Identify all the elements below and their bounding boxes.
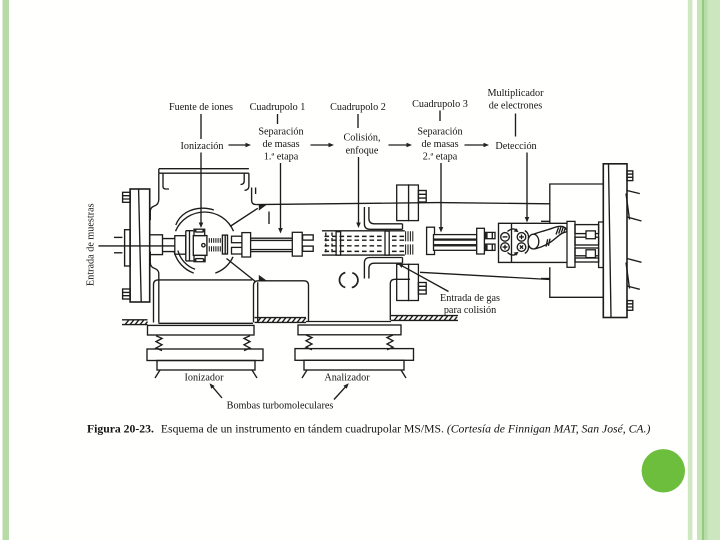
svg-text:Cuadrupolo 3: Cuadrupolo 3 bbox=[412, 99, 468, 110]
quad3 rods bbox=[434, 235, 477, 240]
quad1 rod stub top bbox=[232, 236, 243, 243]
chamber floor left with foot wall bbox=[154, 280, 253, 323]
connector stub bottom bbox=[485, 244, 495, 250]
svg-text:Fuente de iones: Fuente de iones bbox=[169, 102, 233, 113]
svg-text:Entrada de muestras: Entrada de muestras bbox=[86, 203, 97, 286]
quad1 rod stub bottom bbox=[232, 247, 243, 254]
pump1 plate1 bbox=[148, 325, 255, 335]
multiplier horn mouth bbox=[528, 234, 539, 249]
detector box bbox=[499, 223, 568, 262]
square nut top bbox=[586, 231, 595, 239]
lid right hook bbox=[241, 173, 249, 190]
horn mid ring bbox=[546, 239, 550, 247]
hatch piece right bbox=[391, 316, 458, 321]
sphere outer top stroke bbox=[176, 208, 214, 225]
pump2 plate1 bbox=[298, 325, 401, 335]
bulkhead upper bolt bbox=[418, 191, 426, 203]
fan line 4 bbox=[627, 286, 640, 289]
right green stripe thin bbox=[688, 0, 693, 540]
inlet tick upper bbox=[114, 236, 122, 238]
probe block bbox=[150, 235, 163, 255]
right green band bbox=[697, 0, 720, 540]
green circle bottom right bbox=[642, 449, 685, 492]
svg-text:enfoque: enfoque bbox=[346, 146, 379, 157]
bombas arrow left bbox=[212, 386, 222, 398]
ion source top cap bbox=[194, 229, 205, 235]
vent broken circle bbox=[339, 273, 358, 288]
arrow Separacion to Colision bbox=[311, 144, 330, 146]
fan line 3 bbox=[627, 259, 642, 263]
support line bottom bbox=[541, 278, 550, 280]
inlet tick lower bbox=[114, 252, 122, 254]
sphere bottom-right arc bbox=[215, 257, 233, 273]
svg-text:Cuadrupolo 2: Cuadrupolo 2 bbox=[330, 102, 386, 113]
svg-text:2.ª etapa: 2.ª etapa bbox=[423, 152, 458, 163]
cell exit plate bbox=[385, 231, 389, 255]
vertical arrow Fuente de iones to ion source bbox=[200, 114, 202, 223]
funnel upper diagonal bbox=[230, 208, 258, 226]
chamber bottom right slope bbox=[420, 272, 550, 279]
vertical arrow 2 etapa to quad3 bbox=[440, 163, 442, 228]
upper corner stub bbox=[252, 188, 257, 205]
cell solid boundaries bbox=[322, 231, 405, 255]
dynode circle minus bbox=[501, 233, 510, 242]
entry dashed plates bbox=[326, 233, 332, 255]
stub line under Multiplicador bbox=[515, 114, 517, 137]
svg-text:Multiplicador: Multiplicador bbox=[487, 88, 544, 99]
chamber top line bbox=[256, 203, 550, 205]
svg-text:Colisión,: Colisión, bbox=[343, 133, 380, 144]
pump1 foot left bbox=[155, 370, 160, 378]
fan line 1 bbox=[627, 191, 640, 194]
svg-text:Entrada de gas: Entrada de gas bbox=[440, 293, 500, 304]
pump1 bellows left bbox=[156, 336, 162, 351]
dynode circle plus top bbox=[517, 233, 526, 242]
arrow Separacion2 to Deteccion bbox=[465, 144, 485, 146]
probe tube lines bbox=[163, 239, 176, 252]
probe tip block bbox=[175, 236, 186, 255]
svg-text:Separación: Separación bbox=[258, 127, 303, 138]
sphere bottom-left inner arc bbox=[178, 251, 195, 270]
svg-text:Ionizador: Ionizador bbox=[184, 373, 224, 384]
arrow Ionizacion to Separacion bbox=[229, 144, 247, 146]
fan wedge top bbox=[626, 194, 630, 220]
ion source entrance bracket bbox=[186, 231, 194, 261]
detector divider bbox=[511, 223, 513, 262]
small flange plate bbox=[125, 230, 131, 266]
lens comb bbox=[209, 238, 220, 251]
chamber bottom curl left bbox=[150, 252, 159, 323]
svg-text:de electrones: de electrones bbox=[489, 101, 542, 112]
pump1 bellows right bbox=[244, 336, 250, 351]
svg-text:Bombas turbomoleculares: Bombas turbomoleculares bbox=[227, 400, 334, 411]
quad3 entry disk bbox=[427, 227, 435, 254]
support line top bbox=[541, 220, 550, 222]
fan wedge bottom bbox=[626, 263, 630, 289]
chamber lid bbox=[159, 169, 249, 174]
pump1 foot right bbox=[252, 370, 257, 378]
upper gusset bbox=[259, 204, 267, 210]
right bolt top bbox=[627, 171, 633, 181]
svg-text:de masas: de masas bbox=[421, 139, 458, 150]
bar 3 bbox=[575, 248, 599, 256]
connector stub top bbox=[485, 232, 495, 238]
cell bottom hairpin bbox=[364, 258, 402, 279]
bulkhead lower plates bbox=[397, 264, 409, 300]
lid left hook wall bbox=[150, 173, 169, 220]
pump2 plate2 bbox=[295, 349, 414, 361]
pump1 base bbox=[157, 361, 255, 371]
inner plate left bbox=[567, 221, 575, 267]
mid box bbox=[254, 281, 309, 323]
dynode circle plus bottom bbox=[501, 243, 510, 252]
pump2 base bbox=[304, 360, 404, 370]
right bolt bottom bbox=[627, 301, 633, 311]
ion source bottom cap bbox=[194, 255, 205, 261]
horn hatch ticks bbox=[556, 227, 566, 235]
hatch piece left bbox=[122, 320, 148, 325]
pump2 foot right bbox=[401, 370, 406, 378]
right box wall bbox=[390, 279, 410, 320]
svg-text:para colisión: para colisión bbox=[444, 305, 496, 316]
vertical arrow Deteccion to detector bbox=[526, 153, 528, 218]
exit plate bbox=[222, 235, 227, 254]
cell dashed rods bbox=[325, 236, 405, 251]
port2 bottom joint bbox=[306, 321, 391, 323]
fan line 2 bbox=[627, 217, 642, 221]
bar 1 bbox=[575, 225, 599, 234]
curved arrow top bbox=[508, 229, 518, 232]
sphere bottom-left outer arc bbox=[174, 252, 194, 274]
cell entrance plate bbox=[336, 232, 341, 255]
horn plus mark bbox=[566, 227, 570, 231]
inner plate right bbox=[599, 222, 604, 268]
quad3 end disk bbox=[477, 228, 485, 254]
sphere outer top arc bbox=[176, 212, 234, 231]
cell top hairpin bbox=[364, 207, 402, 229]
bombas arrow right bbox=[334, 386, 346, 399]
ion source body bbox=[193, 236, 207, 256]
svg-text:Analizador: Analizador bbox=[324, 373, 370, 384]
pump2 bellows right bbox=[387, 335, 393, 350]
gas leader arrow bbox=[401, 265, 449, 291]
svg-text:Ionización: Ionización bbox=[181, 141, 224, 152]
svg-text:Cuadrupolo 1: Cuadrupolo 1 bbox=[250, 102, 306, 113]
entry rod stub top bbox=[303, 235, 314, 240]
quad1 rods bbox=[251, 238, 293, 251]
svg-text:Separación: Separación bbox=[417, 127, 462, 138]
bolt bottom left bbox=[123, 289, 131, 299]
stub line under Cuadrupolo 3 bbox=[439, 111, 441, 122]
bulkhead upper plates bbox=[397, 185, 409, 221]
stub line under Cuadrupolo 2 bbox=[357, 114, 359, 128]
bolt top left bbox=[123, 192, 131, 202]
sample axis line with arrow bbox=[98, 245, 177, 247]
quad1 mount bar bbox=[242, 233, 251, 257]
multiplier horn body bbox=[534, 226, 568, 249]
foot1 bottom joint bbox=[158, 322, 253, 324]
lower gusset bbox=[259, 275, 267, 281]
curved arrow bottom bbox=[508, 253, 518, 256]
svg-text:Detección: Detección bbox=[495, 141, 536, 152]
bar 4 bbox=[575, 258, 599, 262]
left green bar bbox=[3, 0, 10, 540]
pump2 bellows left bbox=[306, 335, 312, 350]
vertical arrow enfoque to collision cell bbox=[358, 157, 360, 223]
exit lens comb bbox=[406, 231, 413, 254]
arrow Colision to Separacion2 bbox=[389, 144, 408, 146]
dynode circle x bbox=[517, 243, 526, 252]
svg-text:1.ª etapa: 1.ª etapa bbox=[264, 152, 299, 163]
funnel lower diagonal bbox=[227, 259, 257, 283]
main flange plate bbox=[130, 189, 150, 302]
bar 2 bbox=[575, 237, 599, 245]
svg-text:Figura 20-23.Esquema de un ins: Figura 20-23.Esquema de un instrumento e… bbox=[87, 423, 650, 436]
ion source aperture dot bbox=[202, 244, 205, 247]
hatch piece middle bbox=[255, 318, 307, 323]
stub line under Cuadrupolo 1 bbox=[277, 114, 279, 124]
entry rod stub bottom bbox=[303, 246, 314, 251]
pump2 foot left bbox=[302, 370, 307, 378]
pump1 plate2 bbox=[147, 349, 263, 361]
quad1 end disk bbox=[292, 232, 302, 256]
right analyzer box bbox=[550, 184, 603, 297]
right flange plate bbox=[603, 164, 627, 318]
bulkhead lower bolt bbox=[418, 283, 426, 295]
svg-text:de masas: de masas bbox=[262, 139, 299, 150]
vertical arrow 1 etapa to quad1 bbox=[280, 163, 282, 229]
square nut bottom bbox=[586, 250, 595, 258]
